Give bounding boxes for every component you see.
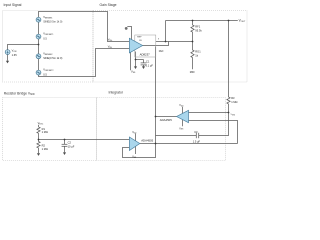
node C2 tap: [64, 139, 66, 141]
wire RG1 top stub: [192, 42, 194, 51]
node U2 out / REF: [155, 116, 157, 118]
svg-text:1 MΩ: 1 MΩ: [231, 100, 237, 104]
ground under U1 V-: [134, 66, 137, 69]
svg-text:MID: MID: [190, 70, 195, 74]
svg-text:1 MΩ: 1 MΩ: [42, 147, 48, 151]
wire U2 +IN to right leg: [189, 121, 238, 144]
wire VEXC stub to R1: [38, 125, 40, 127]
wire mid node to R2: [38, 140, 40, 142]
wire Vout down right side: [228, 21, 230, 98]
wire C3 left segment: [156, 135, 197, 137]
node bridge mid: [38, 139, 40, 141]
wire source chain vertical: [38, 14, 40, 75]
wire U1 VSS stem: [130, 52, 132, 70]
svg-text:1 MΩ: 1 MΩ: [42, 130, 48, 134]
wire U3 feedback loop: [123, 144, 156, 158]
wire chain bottom to +IN corner: [39, 49, 130, 77]
wire output top rail: [166, 20, 238, 22]
wire ground node to C1: [136, 59, 144, 61]
svg-text:Resistor Bridge VMID: Resistor Bridge VMID: [4, 91, 35, 96]
svg-text:C3: C3: [194, 130, 198, 134]
wire U2 VSS stem: [182, 119, 184, 126]
svg-text:VDD: VDD: [179, 104, 184, 107]
source V4: [36, 70, 41, 75]
region box: Resistor Bridge: [3, 98, 97, 161]
svg-text:0.5: 0.5: [43, 37, 47, 41]
capacitor C2 plates: [62, 143, 68, 145]
svg-text:REF: REF: [159, 50, 164, 53]
wire C1 top stub: [143, 60, 145, 63]
svg-text:0.1 µF: 0.1 µF: [146, 63, 154, 67]
ground under VCM: [6, 61, 9, 64]
svg-text:SINE(0 5m 1k 0): SINE(0 5m 1k 0): [43, 56, 62, 60]
source VCM: [5, 50, 10, 55]
svg-text:C1: C1: [146, 59, 150, 63]
op-amp U2 ADA4505 triangle: [177, 110, 189, 122]
svg-text:Integrator: Integrator: [109, 90, 124, 94]
svg-text:R3: R3: [231, 96, 235, 100]
svg-text:RF1: RF1: [195, 25, 200, 29]
op-amp U1 AD8237 triangle: [129, 38, 142, 53]
node FB-rail junction: [165, 41, 167, 43]
svg-text:0.5: 0.5: [43, 73, 47, 77]
wire U3 VDD stem: [135, 134, 137, 142]
supply terminal U1 V+: [125, 27, 128, 30]
svg-text:1.65: 1.65: [12, 53, 18, 57]
wire C2 bottom to ground: [64, 146, 66, 152]
wire supply stem U1 V+: [127, 27, 131, 41]
ground under R2: [37, 153, 40, 156]
resistor RG1: [191, 50, 194, 58]
svg-text:SINE(0 5m 1k 0): SINE(0 5m 1k 0): [43, 20, 62, 24]
ground under C2: [63, 152, 66, 155]
IC body box U1: [135, 35, 156, 57]
wire U2 -IN to R3 node: [189, 112, 229, 114]
wire C2 top stub: [64, 140, 66, 145]
wire U3 VSS stem: [135, 146, 137, 154]
wire VCM to chain: [8, 45, 39, 50]
region box: Input Signal: [3, 11, 94, 83]
node RF1-RG1-FB: [192, 41, 194, 43]
wire U1 output: [143, 42, 169, 46]
wire U2 output: [156, 116, 177, 118]
wire FB pin: [156, 41, 193, 43]
svg-text:1.5 µF: 1.5 µF: [193, 139, 201, 143]
wire C3 right segment: [199, 113, 229, 136]
source V1 sine: [36, 17, 41, 22]
resistor RF1: [191, 25, 194, 32]
svg-text:R2: R2: [42, 143, 46, 147]
region box: Gain Stage: [93, 11, 247, 83]
svg-text:AD8237: AD8237: [140, 53, 151, 57]
resistor R1: [37, 127, 40, 133]
svg-text:REF: REF: [137, 37, 142, 39]
source V2: [36, 34, 41, 39]
wire FB node up to output rail: [165, 21, 167, 42]
node Vout right: [228, 20, 230, 22]
wire VCM to ground: [7, 55, 9, 61]
op-amp U3 ADA4505 triangle: [129, 137, 139, 151]
wire RG1 to MID label: [192, 58, 194, 70]
wire bridge mid to U3 +IN: [39, 139, 130, 141]
svg-text:ADA4505: ADA4505: [141, 138, 153, 142]
node U1 gnd/C1: [135, 59, 137, 61]
wire C1 bottom stub: [143, 65, 145, 67]
resistor R3: [227, 97, 230, 104]
capacitor C3 plates: [195, 133, 197, 138]
wire U3 output long: [140, 143, 238, 145]
svg-text:95.3k: 95.3k: [195, 28, 202, 32]
source V3 sine: [36, 54, 41, 59]
svg-text:VMID: VMID: [231, 114, 236, 116]
node R3 bottom: [228, 112, 230, 114]
wire R2 to ground: [38, 148, 40, 153]
node U3 out: [155, 143, 157, 145]
svg-text:Gain Stage: Gain Stage: [100, 3, 117, 7]
region box: Integrator: [97, 98, 226, 161]
capacitor C1 plates: [141, 62, 147, 64]
wire U2 VDD stem: [182, 107, 184, 114]
svg-text:C2: C2: [68, 141, 72, 145]
wire RF1 to FB: [192, 32, 194, 42]
node chain-VCM junction: [38, 44, 40, 46]
svg-text:10 µF: 10 µF: [68, 145, 75, 149]
svg-text:Input Signal: Input Signal: [4, 3, 22, 7]
node RF1 top: [192, 20, 194, 22]
wire chain top to -IN corner: [39, 12, 130, 42]
svg-text:RG1: RG1: [195, 50, 201, 54]
wire R1 to mid node: [38, 133, 40, 139]
ground under C1: [142, 66, 145, 69]
svg-text:ADA4505: ADA4505: [160, 118, 172, 122]
wire RF1 top stub: [192, 21, 194, 26]
wire REF vertical to integrator: [155, 47, 157, 144]
wire U1 V- to ground node: [135, 52, 137, 67]
resistor R2: [37, 142, 40, 148]
svg-text:VDD: VDD: [132, 131, 137, 134]
wire R3 to U2 -IN node: [228, 104, 230, 113]
